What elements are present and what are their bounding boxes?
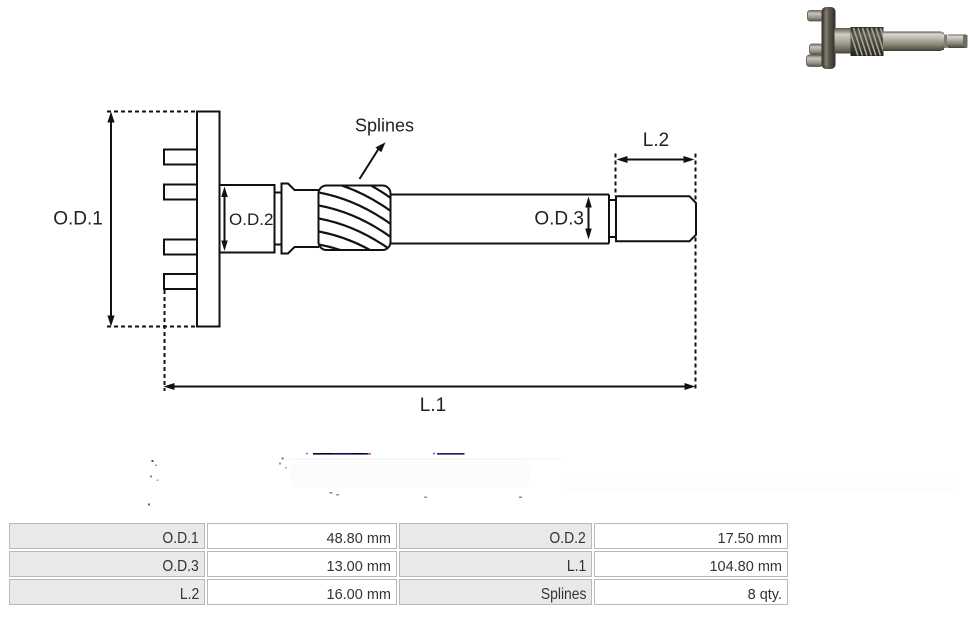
svg-text:L.2: L.2 [643, 130, 669, 151]
splined section body [319, 186, 391, 251]
commutator tab 2 [164, 185, 198, 200]
photo: pin 3 [807, 55, 823, 67]
photo: helical gear [851, 27, 884, 56]
specification table [7, 521, 790, 607]
neck bottom [275, 244, 282, 246]
shaft right end [608, 195, 610, 244]
O.D.2 arrowhead bottom [221, 241, 228, 252]
watermark magenta dots [368, 453, 371, 455]
L.2 arrowhead left [617, 156, 628, 163]
photo: pin 2 [810, 44, 823, 55]
L.1 arrowhead left [164, 383, 175, 390]
faint ghost band [283, 458, 960, 492]
svg-text:L.1: L.1 [420, 395, 446, 416]
dimension L.2 arrow line [624, 159, 687, 161]
photo: gear teeth [849, 28, 890, 56]
photo: end tip [947, 35, 968, 49]
O.D.2 arrowhead top [221, 187, 228, 198]
commutator tab 4 [164, 274, 198, 289]
dashed O.D.1 extension top [107, 111, 197, 113]
shaft O.D.3 bottom line [390, 243, 609, 245]
svg-text:Splines: Splines [355, 116, 414, 136]
watermark line 1 [313, 453, 371, 455]
O.D.1 arrowhead bottom [107, 316, 114, 327]
dimension L.1 arrow line [172, 386, 687, 388]
dimension O.D.3 arrow line [588, 205, 590, 231]
watermark line 2 [437, 453, 465, 455]
dashed L.2 extension left [615, 154, 617, 197]
flange (O.D.1 disc) [197, 112, 220, 327]
dimension O.D.2 arrow line [224, 194, 226, 244]
collar with chamfer [282, 184, 320, 254]
svg-text:O.D.3: O.D.3 [534, 209, 584, 230]
groove top [609, 199, 616, 201]
O.D.1 arrowhead top [107, 112, 114, 123]
shaft O.D.3 top line [390, 194, 609, 196]
L.1 arrowhead right [685, 383, 696, 390]
dashed L.1 extension left [164, 290, 166, 391]
splines arrowhead [376, 142, 386, 152]
photo: pin 1 [808, 11, 823, 22]
neck top [275, 192, 282, 194]
dashed O.D.1 extension bottom [107, 326, 197, 328]
L.2 arrowhead right [684, 156, 695, 163]
dashed L.2/L.1 extension right [695, 154, 697, 391]
photo: flange disc [822, 7, 836, 69]
svg-text:O.D.1: O.D.1 [53, 209, 103, 230]
O.D.3 arrowhead top [585, 197, 592, 208]
svg-text:O.D.2: O.D.2 [229, 210, 273, 229]
dimension O.D.1 arrow line [110, 120, 112, 318]
splines leader line [360, 149, 379, 179]
photo: hub collar [835, 28, 852, 54]
O.D.2 cylinder [220, 185, 275, 253]
watermark specks [148, 458, 522, 506]
end journal (L.2) with chamfer [616, 196, 696, 241]
photo: main shaft [883, 32, 942, 52]
commutator tab 3 [164, 240, 198, 255]
photo: groove rings [942, 33, 945, 51]
groove bottom [609, 236, 616, 238]
commutator tab 1 [164, 150, 198, 165]
O.D.3 arrowhead bottom [585, 229, 592, 240]
